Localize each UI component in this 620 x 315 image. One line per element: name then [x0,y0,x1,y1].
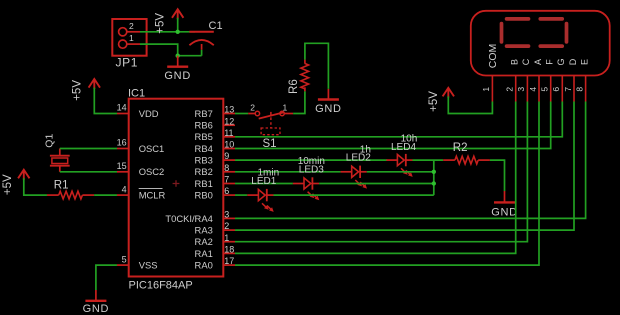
svg-text:LED1: LED1 [251,176,276,187]
svg-text:RB5: RB5 [195,131,213,142]
svg-text:5: 5 [122,254,127,264]
wire RB7 pin 13 to S1 [235,113,248,115]
svg-text:E: E [579,59,589,65]
ground GND at R6 [327,89,329,100]
IC pin 17 RA0 stub [223,264,235,266]
svg-text:VSS: VSS [139,260,158,271]
junction dot JP1/+5V/C1 [176,30,180,34]
IC pin 7 RB1 stub [223,183,235,185]
+5V supply at R1 [18,170,29,180]
wire RA1 pin 18 to display pin 2 [235,102,516,254]
junction dot ground rail [176,54,180,58]
svg-text:RA2: RA2 [195,236,213,247]
svg-text:T0CKI/RA4: T0CKI/RA4 [165,213,212,224]
IC pin 3 T0CKI/RA4 stub [223,217,235,219]
IC IC1 PIC16F84AP box [129,99,224,277]
junction dot LED3 cathode [432,181,436,185]
svg-text:+5V: +5V [2,174,14,195]
svg-text:2: 2 [505,87,515,92]
wire RB2 pin 8 to LED2 [235,171,341,173]
IC pin 14 VDD stub [117,113,129,115]
svg-text:LED4: LED4 [391,142,416,153]
svg-text:VDD: VDD [139,108,159,119]
svg-text:13: 13 [224,105,234,115]
IC pin 13 RB7 stub [223,113,235,115]
wire +5V stem [177,18,179,32]
LED LED1 (1min) [247,189,273,212]
svg-text:3: 3 [516,87,526,92]
wire RB3 pin 9 to LED4 [235,159,387,161]
svg-text:6: 6 [551,87,561,92]
IC origin cross [173,180,180,187]
crystal Q1 [50,149,70,172]
7-segment display LED1 module outline [471,11,610,76]
svg-text:+5V: +5V [71,80,83,101]
svg-text:Q1: Q1 [44,134,56,148]
wire +5V to display pin 1 COM [448,96,492,113]
+5V supply at VDD [89,79,100,89]
wire JP1 pin2 to +5V junction and C1 [140,31,195,33]
svg-text:GND: GND [164,70,191,82]
svg-text:4: 4 [122,184,127,194]
wire RA2 pin 1 to display pin 3 [235,102,527,242]
IC pin 18 RA1 stub [223,252,235,254]
svg-text:15: 15 [117,161,127,171]
svg-text:16: 16 [117,138,127,148]
IC pin 10 RB4 stub [223,148,235,150]
IC pin 8 RB2 stub [223,171,235,173]
svg-text:RB4: RB4 [195,143,213,154]
wire LED1 cathode to bus [274,194,434,196]
wire RB4 pin 10 to display pin 5 [235,102,551,149]
wire RB1 pin 7 to LED3 [235,183,293,185]
svg-text:RB1: RB1 [195,178,213,189]
svg-text:C: C [521,58,531,65]
wire JP1 pin1 to ground rail [140,44,202,56]
svg-text:LED3: LED3 [299,164,324,175]
capacitor C1 [189,32,213,50]
+5V supply at JP1 [172,9,183,19]
+5V supply at display COM [443,88,454,98]
junction dot LED2 cathode [432,170,436,174]
wire RB0 pin 6 to LED1 [235,194,247,196]
svg-text:LED2: LED2 [346,153,371,164]
svg-text:GND: GND [491,207,518,219]
svg-text:1: 1 [224,233,229,243]
IC pin 9 RB3 stub [223,159,235,161]
svg-text:RA1: RA1 [195,248,213,259]
wire LED cathode bus vertical [433,160,435,195]
svg-text:D: D [568,58,578,65]
wire T0CKI/RA4 pin 3 to display pin 8 [235,102,586,219]
IC pin 5 VSS stub [117,264,129,266]
svg-text:4: 4 [528,87,538,92]
svg-text:G: G [556,58,566,65]
svg-text:IC1: IC1 [128,87,145,99]
wire R1 to MCLR pin 4 [94,194,117,196]
svg-text:7: 7 [224,175,229,185]
IC pin 4 MCLR stub [117,194,129,196]
wire RA3 pin 2 to display pin 7 [235,102,574,231]
ground GND at R2 [504,191,506,202]
svg-text:OSC2: OSC2 [139,166,165,177]
IC pin 6 RB0 stub [223,194,235,196]
svg-text:+5V: +5V [428,91,440,112]
svg-text:+5V: +5V [155,13,167,34]
display pin stub 3 [526,76,528,102]
MCLR overline [139,188,163,190]
ground GND at VSS [95,290,97,301]
resistor R6 [301,60,309,92]
LED LED4 (10h) [386,154,412,177]
display pin stub 2 [515,76,517,102]
svg-text:RA3: RA3 [195,225,213,236]
IC pin 1 RA2 stub [223,241,235,243]
svg-text:RB2: RB2 [195,166,213,177]
resistor R1 [47,191,94,199]
svg-text:A: A [533,59,543,65]
svg-text:1: 1 [481,87,491,92]
svg-text:18: 18 [224,245,234,255]
IC pin 16 OSC1 stub [117,148,129,150]
svg-text:COM: COM [487,44,499,69]
svg-text:5: 5 [540,87,550,92]
wire LED2 cathode to bus [367,171,434,173]
svg-text:1: 1 [129,33,134,43]
svg-text:GND: GND [315,103,342,115]
svg-text:6: 6 [224,186,229,196]
display pin stub 4 [538,76,540,102]
connector JP1 [112,19,146,56]
svg-text:MCLR: MCLR [139,190,166,201]
wire RA0 pin 17 to display pin 4 [235,102,539,266]
svg-text:B: B [510,59,520,65]
switch S1 [248,111,293,134]
svg-text:RB7: RB7 [195,108,213,119]
svg-text:10: 10 [224,140,234,150]
wire +5V to R1 [24,178,47,195]
IC pin 11 RB5 stub [223,136,235,138]
svg-text:RB6: RB6 [195,120,213,131]
display pin stub 5 [550,76,552,102]
wire S1 to R6 [293,91,305,113]
LED LED3 (10min) [293,177,319,200]
svg-text:14: 14 [117,103,127,113]
svg-text:3: 3 [224,210,229,220]
svg-text:C1: C1 [209,20,223,32]
IC pin 15 OSC2 stub [117,171,129,173]
svg-text:17: 17 [224,256,234,266]
svg-text:11: 11 [224,128,233,138]
display pin stub 1 [491,76,493,102]
svg-text:12: 12 [224,116,234,126]
svg-text:2: 2 [224,221,229,231]
svg-text:2: 2 [250,103,255,113]
wire R2 to ground [490,160,505,191]
wire C1 to ground rail [201,50,203,56]
display pin stub 6 [561,76,563,102]
svg-text:GND: GND [83,303,110,315]
wire LED3 cathode to bus [319,183,434,185]
IC pin 2 RA3 stub [223,229,235,231]
display pin stub 7 [573,76,575,102]
svg-text:OSC1: OSC1 [139,143,165,154]
wire OSC1 to crystal [60,148,117,150]
svg-text:JP1: JP1 [116,56,138,70]
svg-text:PIC16F84AP: PIC16F84AP [129,279,193,291]
resistor R2 [443,156,490,164]
wire VSS pin 5 to ground [96,265,117,290]
wire OSC2 to crystal [60,171,117,173]
LED LED2 (1h) [341,166,367,189]
left digit segments [502,19,529,46]
wire R6 top to ground [305,43,329,89]
display pin stub 8 [585,76,587,102]
svg-text:1: 1 [283,103,288,113]
svg-text:7: 7 [563,87,573,92]
svg-text:2: 2 [129,21,134,31]
svg-text:F: F [545,59,555,65]
svg-text:R2: R2 [453,142,468,154]
right digit segments [540,19,566,46]
svg-text:R6: R6 [288,79,300,94]
svg-text:8: 8 [224,163,229,173]
svg-text:RB3: RB3 [195,155,213,166]
svg-text:9: 9 [224,151,229,161]
wire LED4 cathode to R2 [413,159,444,161]
wire RB5 pin 11 to display pin 6 [235,102,562,137]
IC pin 12 RB6 stub [223,124,235,126]
wire +5V to VDD pin 14 [94,88,117,114]
svg-text:RA0: RA0 [195,260,213,271]
svg-text:8: 8 [574,87,584,92]
svg-text:R1: R1 [54,180,69,192]
svg-text:RB0: RB0 [195,190,213,201]
ground GND below C1 [177,56,179,67]
